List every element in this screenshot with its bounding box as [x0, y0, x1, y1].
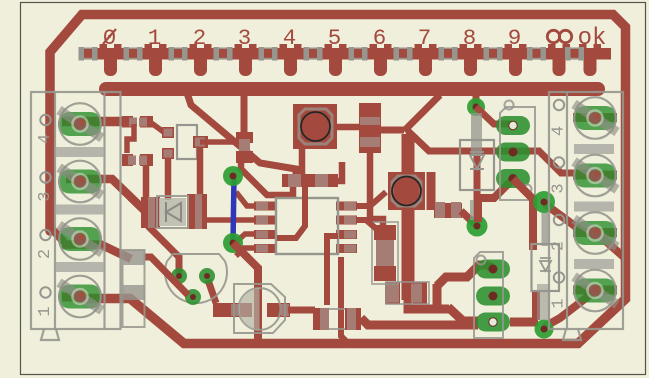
jumper S1 silkscreen — [123, 250, 146, 327]
wire SV2 pad3 down-left — [478, 179, 513, 222]
svg-text:2: 2 — [36, 249, 55, 259]
svg-text:ok: ok — [578, 25, 607, 52]
via V3 — [467, 98, 485, 116]
label infinity — [547, 30, 571, 42]
wire D4 bottom down — [332, 152, 383, 228]
svg-text:5: 5 — [328, 25, 342, 51]
wire C9 to SV3 pad3 — [361, 318, 478, 325]
connector X2 silkscreen body — [549, 92, 623, 340]
via V4 — [467, 216, 488, 237]
op-amp U1 pads left — [254, 202, 276, 254]
connector SV3 pad 3 — [476, 313, 510, 332]
connector X1 pad 4 — [58, 103, 102, 145]
wire V3 to SV2 pad1 — [476, 107, 512, 124]
diode D3 pads — [141, 194, 207, 229]
connector SV2 pad 2 — [496, 143, 530, 162]
op-amp U1 body silkscreen — [276, 198, 338, 254]
op-amp U1 pads right — [336, 202, 357, 254]
wire S1 top pad to Q1 pad E — [145, 257, 188, 295]
svg-text:9: 9 — [508, 25, 522, 51]
wire SV3 pad3 to V6 — [510, 318, 538, 327]
connector SV3 pad 2 — [476, 287, 510, 306]
wire bands through X2 pads — [573, 118, 617, 291]
svg-text:2: 2 — [193, 25, 207, 51]
pad P1 with drill hole — [293, 104, 337, 149]
via V6 — [535, 320, 554, 339]
connector SV2 pad 3 — [496, 169, 530, 188]
wire left edge band to X1 pad2 — [49, 226, 64, 242]
connector X2 pad 2 — [573, 212, 617, 254]
svg-text:3: 3 — [36, 191, 55, 201]
svg-text:4: 4 — [550, 126, 569, 136]
connector X2 pad 1 — [573, 270, 617, 312]
wire bus diagonal to C cluster — [187, 93, 296, 176]
connector X2 pad 4 — [573, 97, 617, 139]
wire D1 vertical trace — [476, 93, 477, 226]
wire R4 to right — [200, 139, 238, 145]
wire X1 pad4 to R1 — [62, 117, 124, 127]
connector SV2 silkscreen box — [500, 101, 535, 201]
diode D2 silkscreen — [532, 212, 560, 291]
connector SV3 pad 1 — [476, 260, 510, 279]
capacitor C1 silkscreen — [234, 284, 285, 333]
wire U1 internal traces — [277, 187, 305, 238]
wire D4 to junction right — [381, 95, 594, 173]
wire X1 pad2 to jumper S1 — [62, 245, 131, 260]
connector X1 pad 3 — [58, 161, 102, 203]
transistor Q1 pad C — [199, 268, 215, 284]
wire R2 down to D3 — [143, 165, 150, 205]
capacitor C9 pads — [313, 308, 361, 330]
wire D2 vertical and bus links — [513, 179, 626, 327]
svg-text:3: 3 — [238, 25, 252, 51]
svg-text:1: 1 — [36, 306, 55, 316]
slashed zero stroke — [103, 29, 116, 44]
wire C3 down to D3 — [168, 147, 200, 200]
via V5 — [533, 191, 555, 213]
resistor R6 — [372, 222, 398, 284]
silk bar above V6 — [537, 284, 550, 320]
svg-text:1: 1 — [550, 298, 569, 308]
svg-text:4: 4 — [36, 134, 55, 144]
svg-text:4: 4 — [283, 25, 297, 51]
connector X1 separator bars — [56, 147, 104, 272]
connector X2 separator bars — [574, 144, 614, 269]
connector X1 pad 1 — [58, 276, 102, 318]
wire D3 left pad diag to Q1 — [148, 226, 179, 274]
connector X2 pad 3 — [573, 155, 617, 197]
transistor Q1 pad B — [171, 268, 187, 284]
svg-text:3: 3 — [550, 183, 569, 193]
resistor R5 — [385, 282, 429, 304]
wire junction down to C7 — [427, 172, 436, 210]
wire thick vertical to P2 — [402, 134, 415, 300]
resistor R2 — [122, 154, 153, 166]
connector X1 pad 2 — [58, 218, 102, 260]
svg-text:1: 1 — [148, 25, 162, 51]
svg-text:8: 8 — [463, 25, 477, 51]
wire U1 pad traces — [207, 192, 256, 256]
silk bar above V4 — [470, 200, 482, 220]
diode D3 body silkscreen — [148, 194, 202, 229]
connector SV1 header strip pads — [79, 44, 612, 76]
connector SV2 pad 1 — [496, 116, 530, 135]
wire U-shape under R5 — [408, 265, 493, 309]
resistor R4 — [193, 136, 208, 148]
wire X1 pad3 to D3 — [66, 179, 145, 211]
capacitor C8 pair above U1 — [282, 174, 338, 187]
resistor R1 — [122, 116, 153, 128]
capacitor C7 — [434, 202, 462, 218]
wire U to SV3 pad3 — [448, 307, 478, 321]
wire C7 to via V4 — [461, 211, 477, 226]
svg-text:7: 7 — [418, 25, 432, 51]
via V2 — [223, 233, 243, 253]
X2 labels 4 3 2 1 — [550, 100, 569, 309]
wire X1 pad1 band — [62, 293, 84, 302]
X1 labels 4 3 2 1 — [36, 115, 55, 317]
wire P1 to C6 — [302, 127, 359, 176]
wire GND second bus bar under header — [99, 82, 605, 96]
wire bar down to C5 — [241, 93, 248, 135]
via V1 — [223, 166, 243, 186]
capacitor C5 vertical — [236, 132, 253, 163]
connector SV3 silkscreen box — [474, 252, 503, 338]
transistor Q1 pad E — [185, 289, 201, 305]
wire GND ring: top band, left band, right band, bottom bus — [50, 15, 626, 344]
pad P2 with drill hole — [388, 172, 425, 210]
capacitor C1 pads — [213, 303, 290, 317]
diode D1 silkscreen — [460, 113, 494, 190]
wire V2 to C1 to bus — [233, 243, 258, 340]
wire Q1 collector to C1 — [208, 280, 216, 303]
silkscreen box C3 — [177, 125, 197, 159]
capacitor C3 vertical pair — [162, 127, 174, 159]
wire C5 to U1 area — [241, 161, 293, 195]
wire bottom layer blue trace — [233, 178, 234, 242]
svg-text:2: 2 — [550, 241, 569, 251]
diode D4 vertical melf — [359, 103, 381, 153]
header pin number labels 0-9 — [103, 25, 522, 51]
transistor Q1 silkscreen outline — [165, 254, 227, 303]
svg-text:6: 6 — [373, 25, 387, 51]
wire C1 right pad to C9 — [288, 307, 315, 314]
wire R1 to R2 zigzag — [127, 122, 165, 153]
connector X1 silkscreen body — [31, 92, 121, 340]
